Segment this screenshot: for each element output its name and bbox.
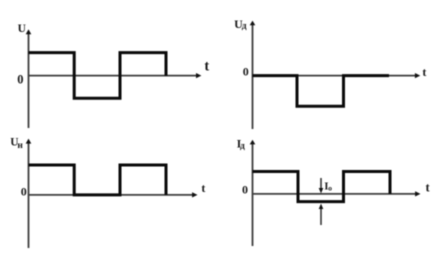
svg-text:д: д (240, 142, 245, 152)
svg-text:t: t (201, 181, 205, 195)
svg-text:д: д (242, 22, 247, 32)
svg-text:t: t (204, 59, 209, 75)
svg-text:0: 0 (242, 183, 248, 197)
svg-text:н: н (17, 141, 23, 151)
svg-text:о: о (328, 183, 332, 192)
svg-text:0: 0 (17, 73, 23, 87)
svg-text:0: 0 (21, 185, 27, 199)
svg-text:t: t (422, 65, 426, 79)
svg-text:U: U (18, 23, 27, 35)
svg-text:0: 0 (243, 64, 249, 78)
svg-text:t: t (426, 181, 431, 195)
